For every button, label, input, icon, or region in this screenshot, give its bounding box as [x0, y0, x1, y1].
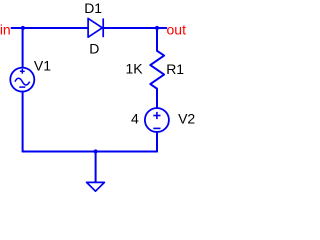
svg-text:in: in	[0, 21, 11, 37]
svg-text:4: 4	[131, 111, 139, 127]
node dot ground	[94, 149, 98, 153]
wire R1 top lead	[156, 28, 158, 51]
wire bottom rail	[23, 151, 157, 153]
svg-text:out: out	[167, 21, 187, 37]
wire V2 bottom lead	[156, 132, 158, 152]
wire R1 to V2 lead	[156, 89, 158, 108]
svg-text:V1: V1	[34, 57, 51, 73]
wire from diode cathode to "out"	[103, 27, 166, 29]
node dot right (out)	[155, 26, 159, 30]
svg-text:V2: V2	[178, 111, 195, 127]
wire V1 bottom lead	[22, 92, 24, 152]
svg-text:D1: D1	[84, 0, 102, 16]
resistor R1	[150, 51, 164, 89]
wire V1 top lead	[22, 28, 24, 68]
ground	[87, 182, 105, 191]
diode D1	[88, 18, 103, 37]
svg-text:D: D	[89, 40, 99, 56]
voltage source V1	[10, 68, 34, 92]
svg-text:1K: 1K	[126, 60, 144, 76]
svg-text:R1: R1	[166, 61, 184, 77]
wire from "in" to diode anode	[12, 27, 89, 29]
voltage source V2	[145, 108, 169, 132]
node dot left (in)	[21, 26, 25, 30]
wire ground stem	[95, 152, 97, 183]
